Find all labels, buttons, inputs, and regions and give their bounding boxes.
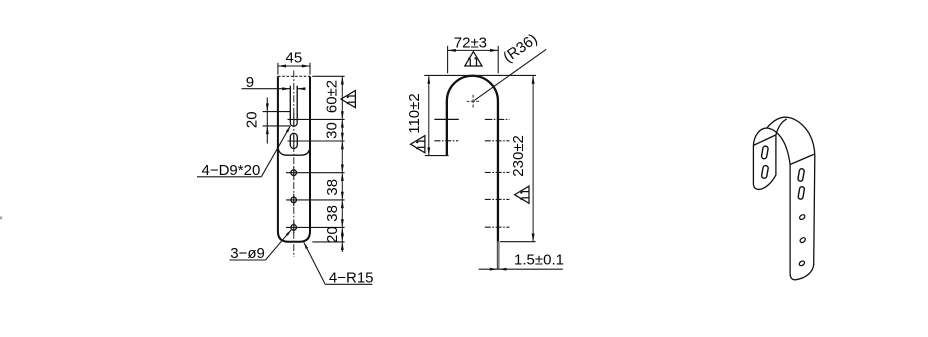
svg-text:45: 45 [286, 50, 303, 67]
svg-text:38: 38 [324, 179, 341, 196]
svg-text:60±2: 60±2 [323, 80, 340, 113]
svg-text:110±2: 110±2 [406, 93, 423, 134]
svg-text:20: 20 [244, 111, 261, 128]
svg-text:20: 20 [324, 226, 341, 243]
svg-text:38: 38 [324, 205, 341, 222]
svg-text:30: 30 [323, 122, 340, 139]
svg-text:9: 9 [246, 74, 254, 91]
svg-text:230±2: 230±2 [510, 135, 527, 177]
svg-text:72±3: 72±3 [454, 34, 487, 51]
svg-text:1.5±0.1: 1.5±0.1 [514, 251, 564, 268]
